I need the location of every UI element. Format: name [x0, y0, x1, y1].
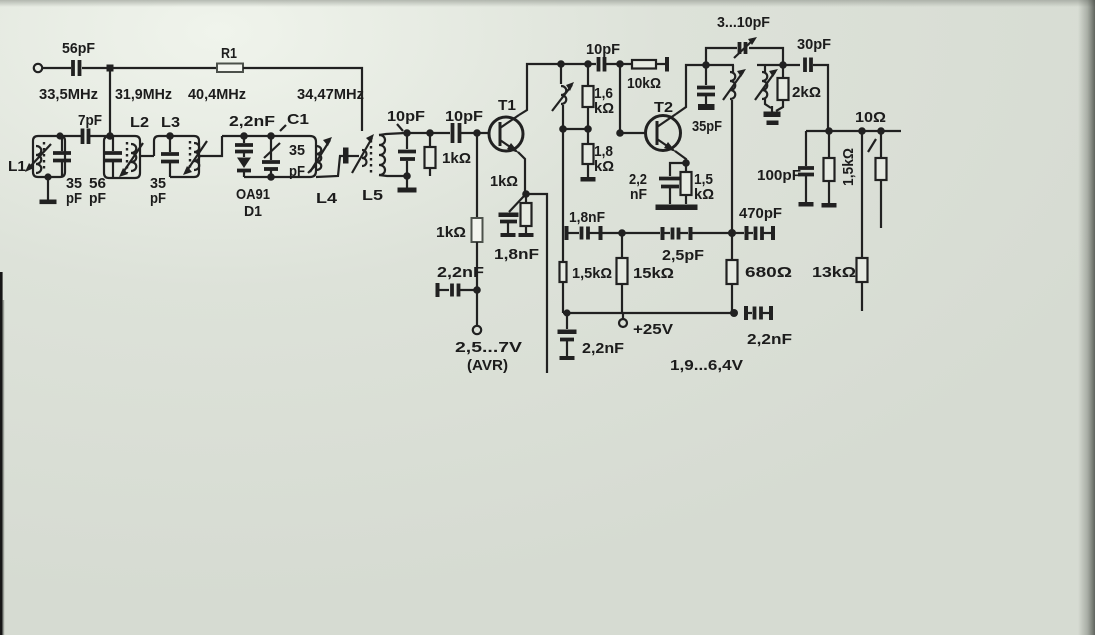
inductor L1 tank loop — [8, 136, 65, 177]
capacitor 2,2nF (AVR) — [436, 264, 485, 297]
svg-text:L4: L4 — [316, 190, 338, 207]
capacitor 2,2nF (AGC bypass) — [558, 309, 625, 360]
svg-text:30pF: 30pF — [797, 36, 831, 53]
wire detector bottom to tap — [316, 156, 343, 177]
svg-text:L3: L3 — [161, 114, 180, 131]
resistor 1,5kOhm (T2 emitter) — [681, 163, 715, 204]
resistor 1kOhm (AVR line) — [436, 133, 483, 326]
wire T2 emitter — [675, 151, 686, 163]
capacitor 1,8nF (T1 emitter) — [494, 196, 539, 263]
node T1 emitter junction — [522, 190, 530, 198]
wire top rail — [407, 132, 450, 134]
svg-text:2,5...7V: 2,5...7V — [455, 339, 522, 356]
svg-text:10Ω: 10Ω — [855, 109, 886, 126]
ground (bandpass) — [764, 106, 781, 125]
svg-text:kΩ: kΩ — [694, 186, 714, 203]
svg-text:pF: pF — [66, 190, 82, 207]
resistor 680Ohm — [727, 233, 793, 313]
inductor L2 tank loop — [104, 114, 149, 178]
svg-text:31,9MHz: 31,9MHz — [115, 86, 172, 103]
variable inductor (bandpass right) — [755, 65, 778, 108]
svg-text:kΩ: kΩ — [594, 100, 614, 117]
svg-text:35: 35 — [289, 142, 305, 159]
node L5 bottom — [403, 172, 411, 180]
capacitor 7pF — [62, 112, 108, 144]
svg-text:pF: pF — [150, 190, 166, 207]
node row-829 — [825, 127, 833, 135]
diode OA91 D1 — [236, 158, 270, 221]
svg-text:OA91: OA91 — [236, 186, 270, 203]
wire — [243, 68, 362, 131]
svg-text:10pF: 10pF — [387, 108, 425, 125]
node T2 base line top — [616, 60, 624, 68]
node 1k top — [426, 129, 434, 137]
capacitor 35pF (L1 tank) — [53, 136, 82, 207]
resistor 10Ohm — [855, 109, 887, 228]
svg-text:L5: L5 — [362, 187, 383, 204]
svg-text:L1: L1 — [8, 158, 26, 175]
capacitor 35pF (bandpass) — [692, 65, 722, 135]
svg-text:10pF: 10pF — [586, 41, 620, 58]
svg-text:40,4MHz: 40,4MHz — [188, 86, 246, 103]
svg-text:1kΩ: 1kΩ — [436, 224, 466, 241]
svg-text:15kΩ: 15kΩ — [633, 265, 674, 282]
svg-text:2kΩ: 2kΩ — [792, 84, 821, 101]
svg-text:+25V: +25V — [633, 321, 673, 338]
svg-text:1,5kΩ: 1,5kΩ — [572, 265, 612, 282]
svg-text:470pF: 470pF — [739, 205, 782, 222]
input terminal — [34, 64, 42, 72]
ground (T2 emitter) — [656, 205, 698, 211]
svg-text:10pF: 10pF — [445, 108, 483, 125]
capacitor 2,2nF (detector) — [229, 113, 275, 157]
wire T1 collector — [519, 64, 560, 115]
capacitor 30pF — [797, 36, 831, 131]
capacitor 470pF (row 233) — [732, 205, 782, 240]
rail +25V (T2 stage) — [563, 312, 734, 314]
svg-text:kΩ: kΩ — [594, 158, 614, 175]
capacitor 2,5pF — [622, 227, 732, 264]
svg-text:nF: nF — [630, 186, 647, 203]
wire rail — [560, 63, 596, 65]
wire divider link — [563, 128, 588, 130]
svg-text:2,2nF: 2,2nF — [437, 264, 484, 281]
svg-text:1kΩ: 1kΩ — [442, 150, 471, 167]
inductor L5 transformer — [352, 133, 405, 204]
svg-text:3...10pF: 3...10pF — [717, 14, 770, 31]
svg-text:(AVR): (AVR) — [467, 357, 508, 374]
transistor T1 — [489, 97, 523, 153]
node 31,9MHz junction — [107, 65, 114, 72]
wire trimmer line down — [562, 129, 564, 262]
wire — [82, 67, 217, 69]
capacitor 35pF (L3 tank) — [150, 136, 179, 207]
ground (L5) — [398, 176, 417, 193]
node L5 top — [403, 129, 411, 137]
svg-text:1kΩ: 1kΩ — [490, 173, 518, 190]
svg-text:680Ω: 680Ω — [745, 264, 792, 281]
svg-text:1,9...6,4V: 1,9...6,4V — [670, 357, 743, 374]
svg-text:L2: L2 — [130, 114, 149, 131]
capacitor 56pF (L2 tank) — [89, 136, 122, 207]
node rail-734 — [730, 309, 738, 317]
node C1 top — [267, 132, 275, 140]
terminal AVR — [455, 326, 522, 374]
detector tank top rail — [222, 136, 316, 177]
svg-text:T2: T2 — [654, 99, 673, 116]
node T2 emitter — [682, 159, 690, 167]
node L2 top junction — [106, 132, 114, 140]
wire — [43, 67, 72, 69]
resistor 1,8kOhm — [581, 129, 615, 182]
wire bandpass left rail — [706, 64, 734, 66]
inductor L4 (variable, right side of detector tank) — [308, 137, 338, 207]
svg-text:34,47MHz: 34,47MHz — [297, 86, 364, 103]
svg-text:35pF: 35pF — [692, 118, 722, 135]
wire T1 emitter — [518, 152, 525, 193]
svg-text:7pF: 7pF — [78, 112, 102, 129]
capacitor 56pF — [62, 40, 95, 76]
terminal +25V (T2 stage) — [619, 313, 673, 338]
svg-text:T1: T1 — [498, 97, 516, 114]
svg-text:2,5pF: 2,5pF — [662, 247, 704, 264]
node row-881 — [877, 127, 885, 135]
node L3 top junction — [166, 132, 174, 140]
trimmer capacitor 3...10pF — [706, 37, 783, 65]
svg-text:2,2nF: 2,2nF — [582, 340, 624, 357]
resistor R1 — [217, 45, 243, 72]
trimmer coil (collector) — [552, 64, 574, 129]
svg-text:1,8nF: 1,8nF — [494, 246, 539, 263]
inductor L3 tank loop — [154, 114, 207, 177]
node collector rail trimmer — [557, 60, 565, 68]
capacitor 1,8nF (row) — [565, 209, 622, 240]
wire 10Ohm row — [806, 130, 901, 132]
capacitor 100pF — [757, 131, 814, 207]
svg-text:R1: R1 — [221, 45, 237, 62]
variable inductor (bandpass left) — [723, 65, 746, 233]
ground (L1) — [40, 177, 57, 204]
capacitor C1 35pF variable — [262, 111, 309, 180]
svg-text:2,2nF: 2,2nF — [229, 113, 275, 130]
svg-text:pF: pF — [289, 163, 305, 180]
svg-text:13kΩ: 13kΩ — [812, 264, 856, 281]
node AVR — [473, 286, 481, 294]
node 680 top — [728, 229, 736, 237]
node L1 top junction — [56, 132, 63, 139]
resistor 1kOhm (T1 emitter) — [490, 173, 534, 237]
capacitor 2,2nF (rail end) — [744, 306, 792, 348]
svg-text:1,5kΩ: 1,5kΩ — [840, 148, 857, 186]
node detector top — [240, 132, 248, 140]
resistor 15kOhm — [617, 233, 675, 313]
svg-text:C1: C1 — [287, 111, 309, 128]
wire T2 collector — [676, 65, 706, 114]
node bandpass right — [779, 61, 787, 69]
node 1,6k top — [584, 60, 592, 68]
page left edge dark line — [0, 272, 3, 635]
capacitor tank (L5) — [398, 133, 416, 176]
node C1 bottom — [267, 173, 275, 181]
wire emitter to AGC — [526, 194, 547, 373]
wire tap to L5 — [349, 155, 360, 157]
resistor 1,6kOhm — [583, 64, 615, 129]
capacitor 10pF (series to T1) — [445, 108, 489, 143]
resistor 1,5kOhm (trimmer line) — [560, 262, 613, 313]
wire bandpass right rail — [757, 64, 800, 66]
svg-text:2,2nF: 2,2nF — [747, 331, 792, 348]
wire vertical to L2 — [109, 68, 111, 134]
svg-text:33,5MHz: 33,5MHz — [39, 86, 98, 103]
label 10pF (L5 tank) — [387, 108, 425, 131]
resistor 1kOhm (L5) — [425, 133, 472, 176]
svg-text:1,8nF: 1,8nF — [569, 209, 605, 226]
transistor T2 — [646, 99, 681, 152]
node L1 bottom junction — [44, 173, 51, 180]
wire T2 base — [616, 64, 646, 137]
resistor 10kOhm — [627, 57, 669, 92]
resistor 13kOhm — [812, 131, 868, 311]
resistor 2kOhm (bandpass) — [776, 65, 821, 111]
capacitor 2,2nF (T2 emitter) — [629, 163, 686, 204]
resistor 1,5kOhm (vertical label) — [822, 131, 858, 208]
node bandpass left — [702, 61, 710, 69]
svg-text:100pF: 100pF — [757, 167, 801, 184]
node row-862 — [858, 127, 866, 135]
node T1 base — [473, 129, 481, 137]
wire L2 to L3 — [140, 155, 154, 157]
node divider — [584, 125, 592, 133]
svg-text:10kΩ: 10kΩ — [627, 75, 661, 92]
node caps row — [618, 229, 626, 237]
capacitor 10pF (to T2) — [586, 41, 631, 72]
tap bar — [343, 148, 349, 164]
svg-text:pF: pF — [89, 190, 106, 207]
wire L3 to detector tank — [199, 136, 222, 156]
svg-text:56pF: 56pF — [62, 40, 95, 57]
svg-text:D1: D1 — [244, 203, 262, 220]
